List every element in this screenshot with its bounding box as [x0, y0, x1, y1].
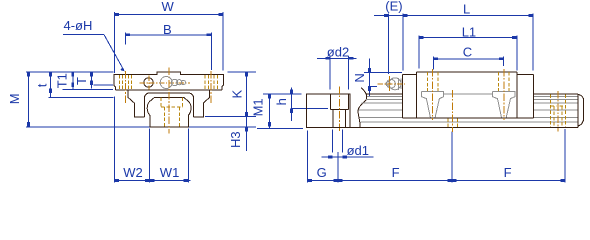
svg-text:F: F — [392, 165, 400, 180]
svg-text:T1: T1 — [55, 73, 70, 88]
svg-text:W: W — [162, 0, 175, 14]
svg-text:t: t — [34, 83, 49, 87]
svg-text:L: L — [463, 2, 470, 17]
svg-text:T: T — [74, 77, 89, 85]
svg-text:L1: L1 — [462, 24, 476, 39]
svg-text:N: N — [352, 73, 367, 82]
svg-text:ød1: ød1 — [347, 143, 369, 158]
svg-text:C: C — [463, 45, 472, 60]
svg-text:4-øH: 4-øH — [64, 18, 93, 33]
svg-text:W2: W2 — [123, 165, 143, 180]
svg-text:h: h — [274, 98, 289, 105]
svg-text:K: K — [229, 90, 244, 99]
svg-text:H3: H3 — [228, 131, 243, 148]
svg-text:M1: M1 — [251, 98, 266, 116]
svg-text:G: G — [317, 165, 327, 180]
svg-text:(E): (E) — [385, 0, 402, 14]
svg-text:B: B — [163, 22, 172, 37]
svg-text:W1: W1 — [160, 165, 180, 180]
svg-text:M: M — [7, 93, 22, 104]
svg-text:F: F — [504, 165, 512, 180]
